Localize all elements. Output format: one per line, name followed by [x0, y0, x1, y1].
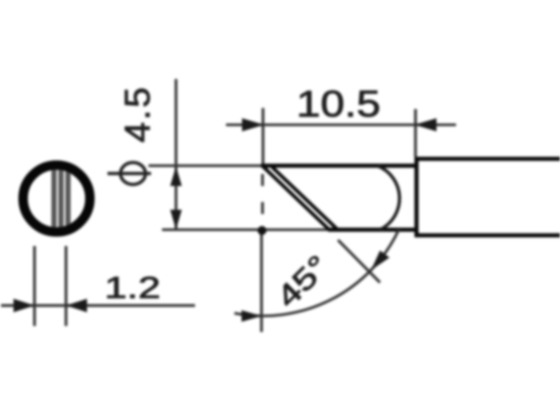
svg-text:1.2: 1.2: [104, 270, 160, 305]
svg-text:4.5: 4.5: [118, 85, 157, 142]
svg-text:10.5: 10.5: [296, 83, 380, 124]
